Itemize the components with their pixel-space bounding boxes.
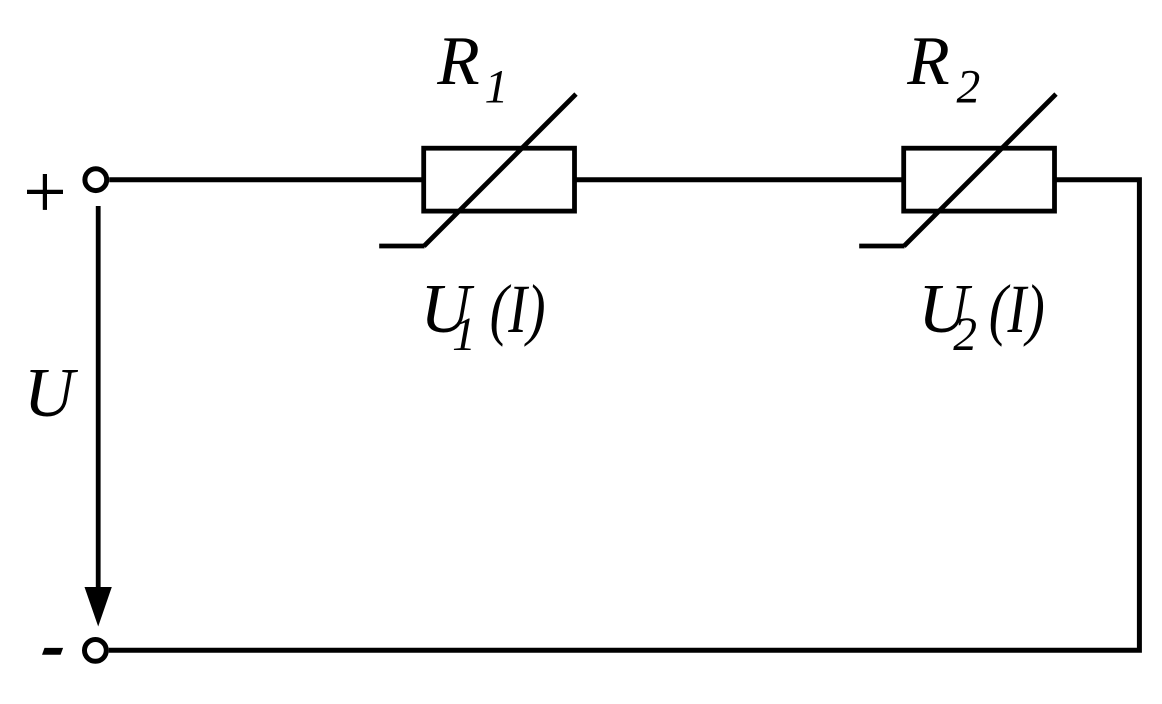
wire left vertical (arrow shaft of U) <box>96 206 101 588</box>
wire from R2 down right side to bottom and back to - terminal <box>109 180 1140 651</box>
svg-text:U: U <box>24 355 79 432</box>
svg-text:(I): (I) <box>490 271 546 347</box>
plus sign (+ polarity of source) <box>27 174 63 210</box>
resistor R1 (nonlinear resistor symbol) <box>379 94 576 246</box>
svg-text:2: 2 <box>957 61 981 113</box>
svg-text:R: R <box>436 23 479 100</box>
svg-text:1: 1 <box>485 61 509 113</box>
label U1(I) <box>420 271 545 361</box>
wire from + terminal to R1 <box>109 177 424 182</box>
terminal - (negative source terminal) <box>85 640 107 662</box>
terminal + (positive source terminal) <box>85 169 107 191</box>
label R1 <box>436 23 508 113</box>
label U2(I) <box>918 271 1045 361</box>
minus sign (- polarity of source) <box>42 648 63 655</box>
arrowhead of U (points down) <box>85 587 112 627</box>
svg-text:2: 2 <box>953 309 977 361</box>
label R2 <box>906 23 980 113</box>
svg-text:1: 1 <box>452 309 476 361</box>
wire from R1 to R2 <box>575 177 905 182</box>
svg-text:R: R <box>906 23 949 100</box>
svg-text:(I): (I) <box>989 271 1045 347</box>
resistor R2 (nonlinear resistor symbol) <box>859 94 1056 246</box>
